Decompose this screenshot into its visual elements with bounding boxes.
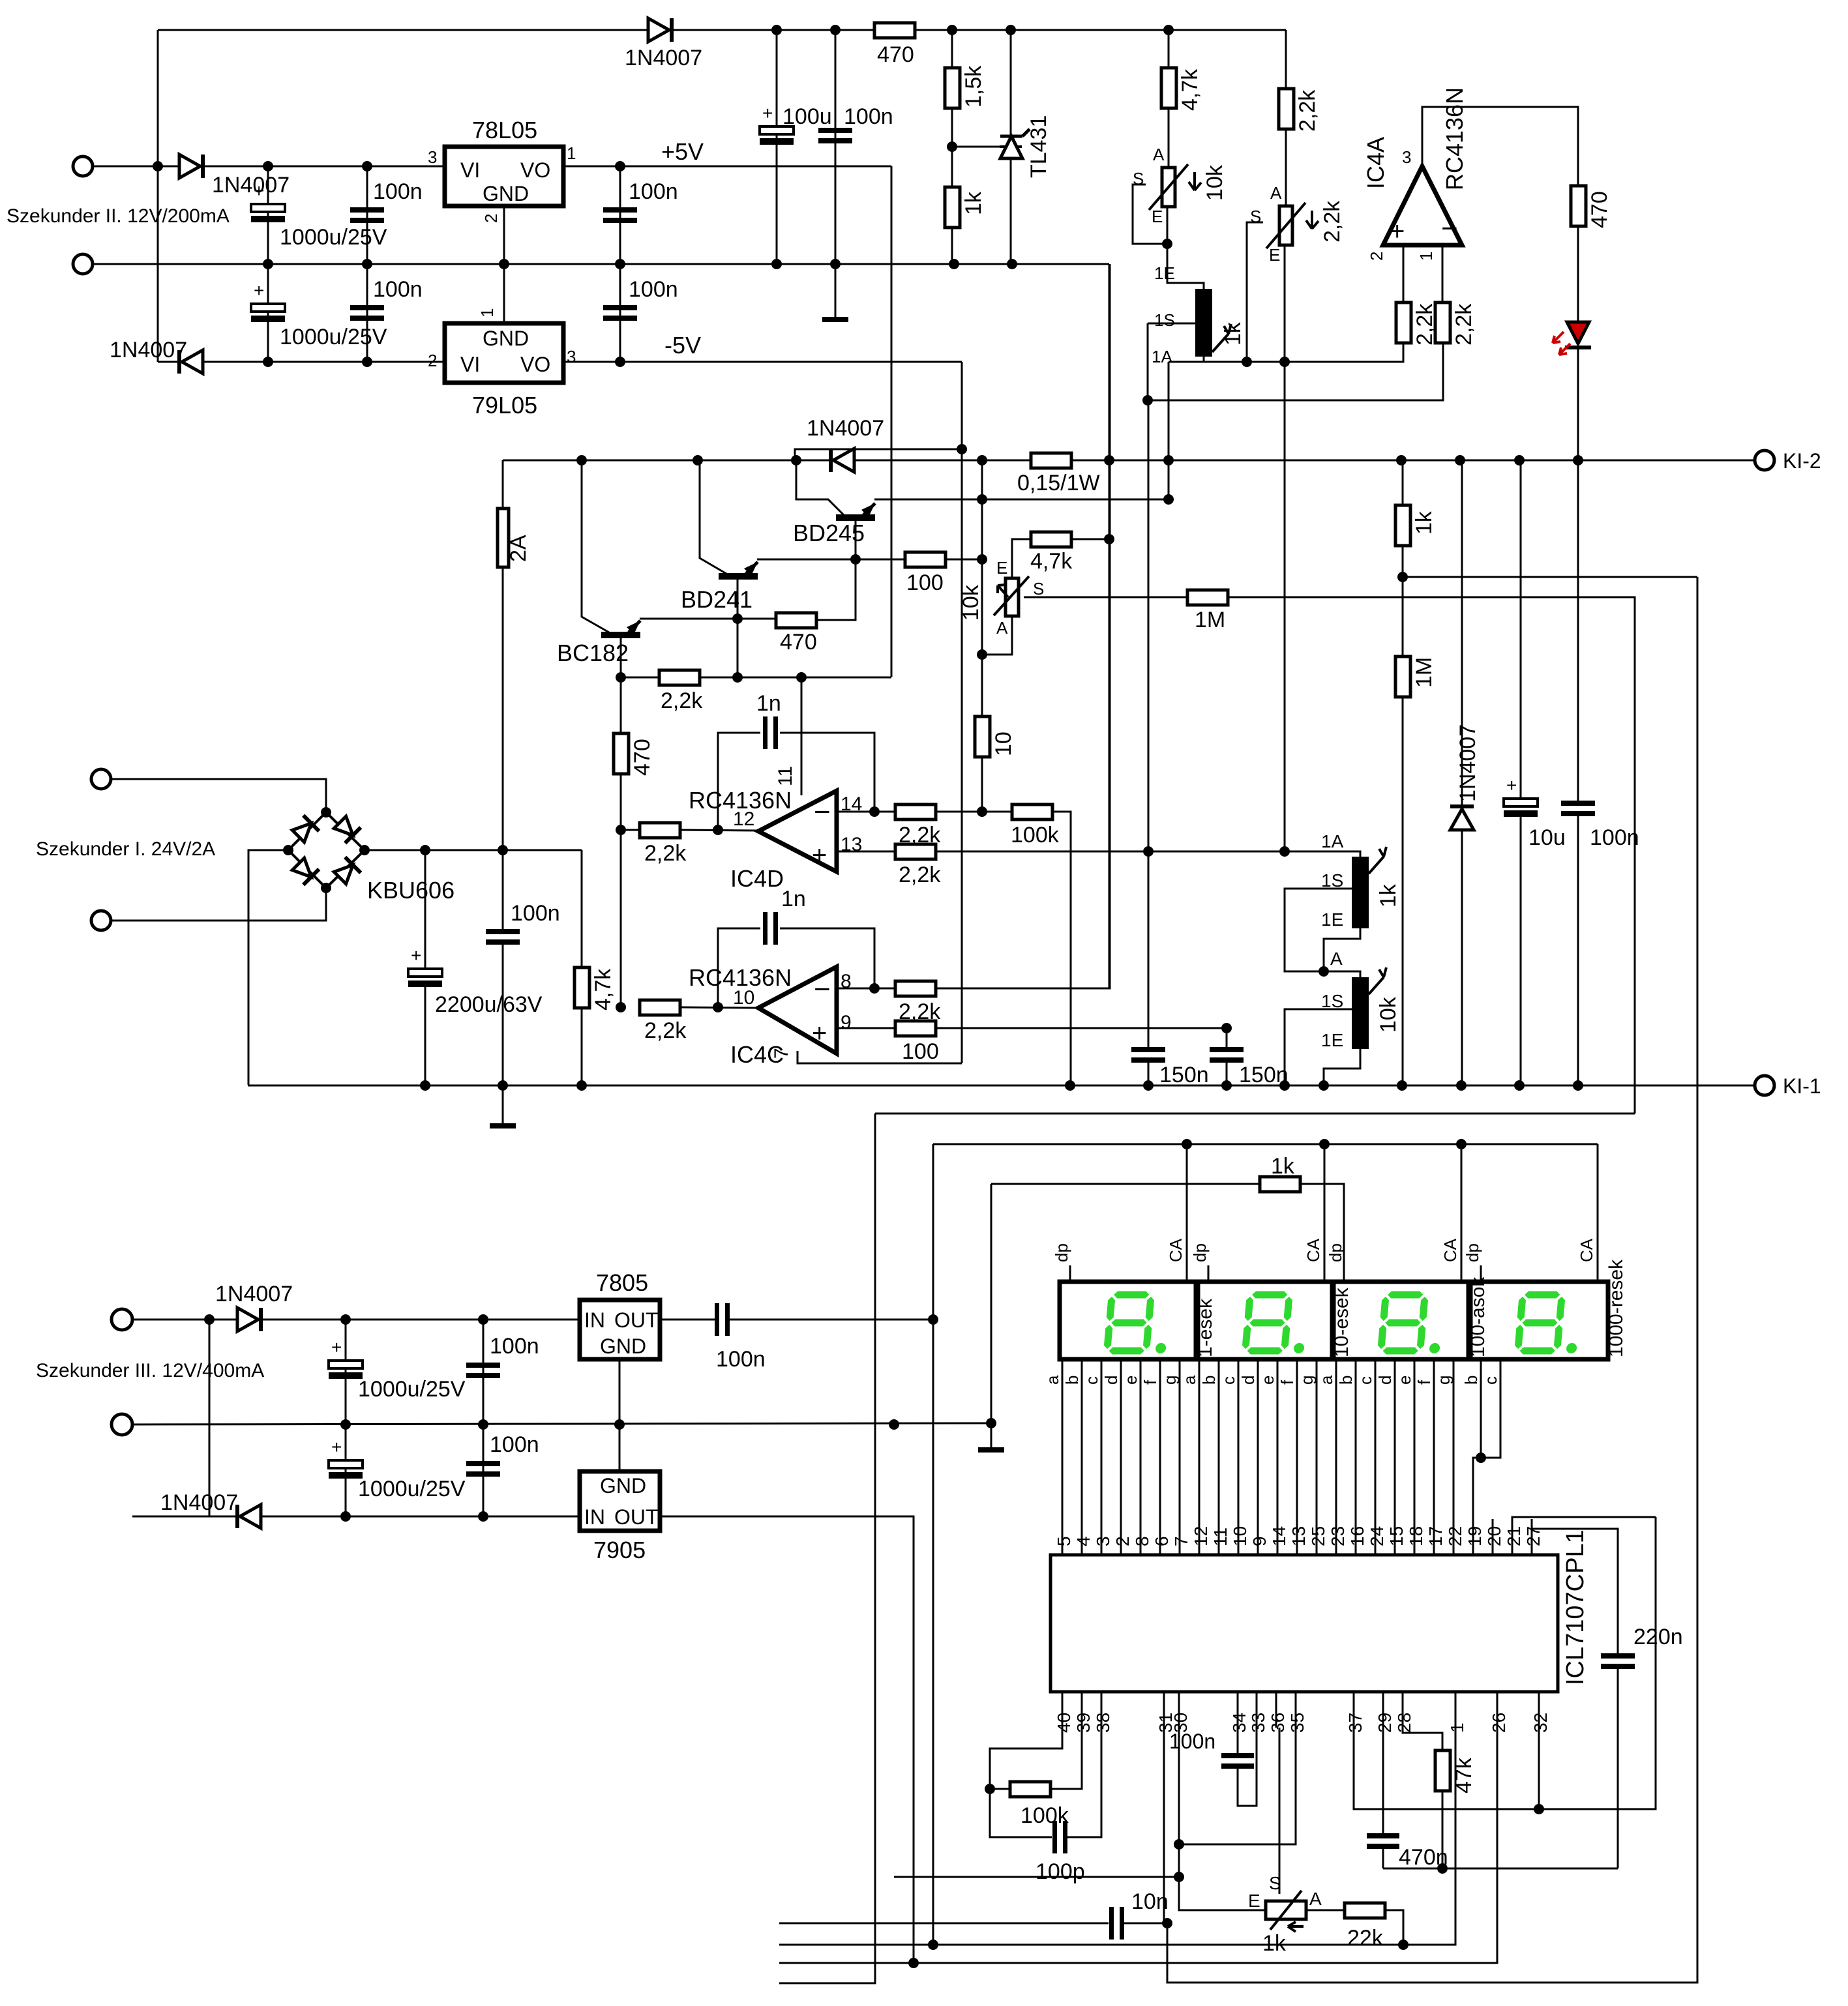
ICL7107 bottom pin 26: [1497, 1692, 1498, 1728]
wire 1A drop: [1203, 357, 1205, 362]
svg-text:E: E: [1248, 1891, 1260, 1911]
svg-text:1k: 1k: [1271, 1154, 1295, 1179]
terminal KI-1: [1755, 1076, 1774, 1095]
svg-text:b: b: [1461, 1376, 1481, 1385]
svg-text:+: +: [812, 1019, 827, 1048]
wire 1M down: [1402, 698, 1404, 1085]
capacitor 1n IC4D: [763, 716, 768, 749]
svg-text:1000u/25V: 1000u/25V: [358, 1377, 466, 1402]
junction psu3 bus: [204, 1314, 215, 1325]
svg-text:470: 470: [877, 42, 914, 67]
svg-text:100n: 100n: [490, 1334, 539, 1359]
wire 100n top right leads: [835, 30, 837, 319]
svg-text:5: 5: [1054, 1536, 1074, 1546]
svg-text:0,15/1W: 0,15/1W: [1017, 471, 1100, 495]
svg-text:dp: dp: [1326, 1243, 1345, 1262]
display 3 dp pin: [1343, 1265, 1345, 1282]
resistor 10: [975, 716, 990, 757]
junction top rail 100n: [830, 25, 841, 35]
svg-text:3: 3: [1402, 147, 1411, 167]
junction CA rail x=2031: [1319, 1139, 1330, 1149]
display digit 4 segments: [1515, 1292, 1581, 1353]
terminal Szekunder I upper: [91, 769, 111, 789]
svg-text:c: c: [1219, 1376, 1238, 1385]
junction 470 2,2k: [616, 825, 626, 835]
svg-text:a: a: [1180, 1375, 1199, 1385]
wire segment c to ICL pin 10: [1238, 1359, 1240, 1555]
svg-text:1: 1: [1416, 252, 1436, 261]
junction KI-1 x=2241: [1456, 1080, 1467, 1091]
junction mid rail x=773: [499, 259, 509, 269]
svg-text:1S: 1S: [1321, 991, 1343, 1011]
wire 10u leads: [1520, 460, 1522, 799]
wire 1k to node: [1402, 545, 1404, 655]
ICL7107 bottom pin 29: [1382, 1692, 1384, 1728]
wire 1n loop IC4C: [718, 928, 760, 1007]
wire segment e to ICL pin 14: [1277, 1359, 1279, 1555]
junction 100k 100p: [985, 1784, 995, 1794]
svg-text:IC4D: IC4D: [730, 865, 784, 892]
wire psu3 bottom rail: [132, 1516, 580, 1518]
wire segment b display4: [1473, 1359, 1481, 1555]
junction psu3 mid x=950: [614, 1419, 625, 1430]
svg-text:9: 9: [841, 1012, 852, 1033]
svg-text:1S: 1S: [1321, 870, 1343, 891]
display digit 2 segments: [1242, 1292, 1309, 1353]
wire BD241 collector: [737, 579, 739, 677]
bridge diode: [290, 856, 319, 885]
svg-text:1: 1: [567, 143, 576, 163]
junction mid rail x=411: [263, 259, 273, 269]
resistor 4,7k top: [1161, 68, 1176, 108]
resistor 4,7k mid: [1031, 532, 1071, 547]
display digit 3 segments: [1378, 1292, 1444, 1353]
junction pin32 net: [1534, 1804, 1544, 1814]
junction KI-2 rail x=1506: [977, 455, 987, 465]
wire segment c to ICL pin 24: [1375, 1359, 1377, 1555]
diode 1N4007 +12 rail: [179, 155, 200, 178]
junction KI-1 x=1641: [1065, 1080, 1075, 1091]
svg-text:VO: VO: [520, 158, 550, 182]
wire +12 rail: [203, 166, 445, 168]
resistor 2,2k pin14: [895, 804, 936, 819]
wire 100n r leads: [1577, 460, 1579, 803]
svg-text:1N4007: 1N4007: [807, 416, 884, 441]
junction 1S bus: [1142, 395, 1153, 406]
capacitor 470n: [1367, 1833, 1399, 1838]
wire -5V drop: [961, 362, 963, 1063]
junction KI-2 rail x=1701: [1104, 455, 1114, 465]
svg-text:VI: VI: [460, 158, 480, 182]
wire pin12 node: [621, 829, 640, 831]
wire 470 vert leads: [620, 677, 622, 830]
capacitor 100n KBU: [486, 929, 520, 934]
junction emitter KI-2 stub: [977, 494, 987, 505]
capacitor 150n left: [1131, 1047, 1165, 1052]
svg-text:10k: 10k: [1376, 996, 1401, 1033]
ICL7107 bottom pin 35: [1295, 1692, 1297, 1728]
resistor 100k right: [1012, 804, 1052, 819]
wire 4,7k leads: [1168, 30, 1170, 168]
svg-text:1A: 1A: [1152, 347, 1172, 366]
svg-text:100n: 100n: [373, 277, 423, 302]
svg-text:d: d: [1375, 1376, 1395, 1385]
resistor 470 top: [874, 23, 915, 38]
svg-text:100n: 100n: [629, 179, 678, 204]
wire 2200u bottom: [425, 987, 426, 1085]
capacitor 100n right: [1561, 801, 1595, 806]
junction mid rail x=951: [615, 259, 625, 269]
wire IC4A pin2: [1403, 245, 1405, 304]
svg-text:c: c: [1481, 1376, 1500, 1385]
svg-text:2200u/63V: 2200u/63V: [435, 992, 543, 1017]
wire 1k disp right: [1300, 1184, 1344, 1282]
wire pot A down: [982, 616, 1012, 655]
ICL7107 bottom pin 31: [1163, 1692, 1165, 1728]
resistor 1M vertical: [1395, 656, 1410, 697]
wire pin40: [990, 1728, 1062, 1789]
svg-text:21: 21: [1504, 1526, 1524, 1546]
capacitor 100n lower left: [350, 305, 384, 310]
display 1 dp pin: [1069, 1265, 1071, 1282]
svg-text:RC4136N: RC4136N: [1441, 87, 1468, 190]
junction -12 C4: [263, 357, 273, 367]
svg-text:18: 18: [1406, 1526, 1426, 1546]
svg-text:2: 2: [1112, 1536, 1133, 1546]
junction KI-1 x=892: [576, 1080, 587, 1091]
wire 100n C6: [619, 264, 621, 362]
svg-text:15: 15: [1386, 1526, 1407, 1546]
svg-text:36: 36: [1268, 1713, 1288, 1733]
svg-text:1E: 1E: [1321, 1030, 1343, 1050]
wire node A to loop: [1403, 576, 1697, 578]
wire pin7: [797, 1051, 962, 1063]
wire segment g to ICL pin 7: [1179, 1359, 1181, 1555]
ICL7107 bottom pin 40: [1062, 1692, 1064, 1728]
junction psu3 mid x=530: [340, 1419, 351, 1430]
resistor 4,7k KBU: [574, 967, 589, 1008]
svg-text:b: b: [1336, 1376, 1356, 1385]
display digit 1 box: [1060, 1282, 1196, 1359]
svg-text:100p: 100p: [1036, 1859, 1085, 1884]
wire C4 leads: [267, 264, 269, 362]
svg-text:2,2k: 2,2k: [644, 1018, 687, 1043]
wire psu3 c4: [483, 1424, 484, 1516]
svg-text:+: +: [1506, 775, 1517, 795]
svg-text:KI-2: KI-2: [1783, 449, 1821, 473]
svg-text:10: 10: [991, 731, 1016, 756]
wire KI-2 rail: [503, 460, 1755, 462]
junction psu3 c3b: [340, 1511, 351, 1522]
svg-text:100: 100: [902, 1039, 939, 1064]
svg-text:Szekunder III. 12V/400mA: Szekunder III. 12V/400mA: [36, 1360, 264, 1381]
svg-text:e: e: [1395, 1376, 1414, 1385]
svg-text:470: 470: [1587, 191, 1612, 228]
junction -12 C5: [362, 357, 372, 367]
resistor 1k display: [1260, 1177, 1300, 1192]
wire 1n right IC4C: [780, 928, 874, 988]
junction psu3 c1: [340, 1314, 351, 1325]
svg-text:38: 38: [1093, 1713, 1113, 1733]
wire 2,2k to pin10: [680, 1007, 758, 1008]
junction KI-2 rail x=892: [576, 455, 587, 465]
svg-text:e: e: [1121, 1376, 1140, 1385]
svg-text:e: e: [1258, 1376, 1277, 1385]
op-amp IC4A: [1383, 166, 1462, 245]
svg-text:1N4007: 1N4007: [625, 46, 702, 70]
junction KI-2 rail x=1070: [693, 455, 703, 465]
resistor 100k osc: [1010, 1782, 1051, 1797]
svg-text:1k: 1k: [1262, 1931, 1287, 1956]
junction pin30 35: [1174, 1839, 1184, 1850]
wire 4,7k right: [1071, 538, 1109, 540]
svg-text:100n: 100n: [511, 901, 560, 926]
junction +12 C2: [362, 161, 372, 171]
ICL7107 bottom pin 39: [1081, 1692, 1083, 1728]
svg-text:KI-1: KI-1: [1783, 1074, 1821, 1098]
wire 1k right leads: [1402, 460, 1404, 505]
junction 150n right top: [1221, 1023, 1232, 1033]
ICL7107 bottom pin 28: [1402, 1692, 1404, 1728]
terminal Szekunder III upper: [112, 1309, 132, 1330]
svg-text:1N4007: 1N4007: [1455, 724, 1480, 802]
wire segment d to ICL pin 9: [1257, 1359, 1259, 1555]
svg-text:35: 35: [1287, 1713, 1307, 1733]
wire psu3 bus: [209, 1320, 211, 1516]
wire 100k right lead: [1052, 812, 1071, 1085]
resistor 1M horizontal: [1187, 590, 1228, 605]
capacitor 100p: [1052, 1821, 1057, 1853]
wire psu3 c1: [345, 1320, 347, 1424]
svg-text:1k: 1k: [1376, 883, 1401, 907]
junction KI-1 x=2420: [1573, 1080, 1583, 1091]
wire 1n loop IC4D: [718, 733, 760, 830]
capacitor 10n: [1109, 1907, 1114, 1940]
svg-text:2: 2: [481, 214, 501, 223]
svg-text:dp: dp: [1052, 1243, 1071, 1262]
wire pin8 out: [837, 988, 895, 990]
junction KI-2 rail x=2239: [1455, 455, 1465, 465]
wire pin13 long: [936, 851, 1360, 857]
wire pot A 22k: [1306, 1910, 1345, 1911]
wire bridge plus rail: [365, 849, 582, 851]
svg-text:100n: 100n: [844, 104, 893, 129]
display digit 1 segments: [1104, 1292, 1170, 1353]
wire pin32: [1538, 1728, 1540, 1809]
svg-text:IN: IN: [584, 1505, 605, 1529]
wire BD245 collector: [855, 520, 857, 559]
svg-text:22: 22: [1445, 1526, 1465, 1546]
wire 100n kbu bottom: [502, 942, 504, 1085]
diode 1N4007 psu3 top: [237, 1308, 258, 1331]
wire 79L05 GND: [503, 264, 505, 323]
wire 100p left: [990, 1789, 1052, 1837]
trimmer 1k right (solid): [1352, 857, 1369, 928]
svg-text:13: 13: [1289, 1526, 1309, 1546]
svg-text:OUT: OUT: [614, 1308, 659, 1332]
junction 2,2k IC4C: [616, 1002, 626, 1012]
regulator 7905: [580, 1471, 660, 1531]
svg-text:100k: 100k: [1021, 1803, 1069, 1828]
svg-text:E: E: [1152, 207, 1163, 226]
wire TL431 leads: [1010, 30, 1012, 136]
svg-text:470n: 470n: [1399, 1845, 1448, 1870]
wire 555 right: [1169, 342, 1403, 362]
wire segment d to ICL pin 15: [1394, 1359, 1396, 1555]
svg-text:1N4007: 1N4007: [215, 1282, 293, 1306]
capacitor 100n psu3 bot: [466, 1461, 500, 1466]
wire 100k left: [990, 1788, 1010, 1790]
svg-text:4,7k: 4,7k: [1030, 549, 1073, 574]
wire CA4: [1597, 1144, 1599, 1282]
junction pot10k SE: [1162, 239, 1172, 249]
wire CA2: [1324, 1144, 1326, 1282]
capacitor 100n psu3 top: [466, 1363, 500, 1368]
display digit 4 box: [1470, 1282, 1608, 1359]
display digit 2 box: [1198, 1282, 1332, 1359]
wire bridge minus: [248, 850, 288, 1085]
junction +12 C1: [263, 161, 273, 171]
svg-text:29: 29: [1375, 1713, 1395, 1733]
ICL7107 bottom pin 32: [1538, 1692, 1540, 1728]
svg-text:100u: 100u: [782, 104, 832, 129]
svg-text:Szekunder I. 24V/2A: Szekunder I. 24V/2A: [36, 838, 215, 860]
svg-text:A: A: [1153, 145, 1165, 164]
op-amp IC4C: [758, 967, 837, 1054]
junction x1506 100: [977, 554, 987, 565]
wire IC4A pin1: [1442, 245, 1444, 304]
capacitor 1n IC4C: [763, 912, 768, 945]
svg-text:1E: 1E: [1321, 909, 1343, 930]
svg-text:10u: 10u: [1528, 825, 1566, 850]
wire sek1 top: [111, 779, 326, 812]
svg-text:10n: 10n: [1131, 1889, 1169, 1914]
svg-text:2: 2: [428, 351, 437, 370]
wire 10u bottom: [1520, 817, 1522, 1085]
junction 22k bus: [1398, 1940, 1408, 1950]
wire 1S bus: [1148, 342, 1443, 400]
wire pin29: [1382, 1728, 1384, 1833]
junction plus 100n: [498, 845, 508, 855]
wire bus 2951b: [1124, 1923, 1167, 1925]
junction KI-2 rail x=1792: [1163, 455, 1174, 465]
junction psu3 c4b: [478, 1511, 488, 1522]
wire pot2,2k S jumper: [1247, 222, 1263, 362]
wire bus 2951: [779, 1923, 1109, 1925]
svg-text:1: 1: [1447, 1722, 1467, 1733]
svg-text:11: 11: [1210, 1527, 1230, 1546]
junction node A wire: [1397, 572, 1408, 582]
junction bus 7905: [908, 1958, 919, 1968]
transistor BD245: [836, 514, 875, 521]
resistor 1,5k: [945, 68, 960, 108]
wire 100 to stub: [946, 559, 982, 561]
junction KI-1 x=2150: [1397, 1080, 1407, 1091]
wire 1A vertical: [1168, 362, 1170, 499]
wire KI-2 tap: [795, 449, 962, 460]
trimmer 1k upper (solid): [1195, 289, 1212, 357]
svg-text:VI: VI: [460, 353, 480, 376]
resistor 2,2k IC4A+: [1396, 302, 1411, 343]
regulator 79L05: [445, 323, 563, 383]
wire 7905 gnd: [619, 1424, 621, 1471]
junction pin13 x1762: [1143, 846, 1154, 857]
svg-text:7905: 7905: [593, 1537, 646, 1563]
wire A to 10k pot: [1324, 971, 1360, 977]
wire outer loop bottom: [1167, 577, 1697, 1983]
svg-text:100n: 100n: [1590, 825, 1639, 850]
svg-text:A: A: [1309, 1889, 1322, 1909]
wire segment b to ICL pin 11: [1218, 1359, 1220, 1555]
svg-text:g: g: [1434, 1376, 1453, 1385]
wire BD241 emitter wire: [757, 559, 906, 561]
svg-text:1E: 1E: [1154, 263, 1175, 283]
ground 100n top right: [822, 317, 848, 322]
resistor 2,2k IC4D in: [640, 823, 680, 838]
bridge diode: [290, 816, 319, 844]
wire pin34 b: [1238, 1728, 1257, 1806]
svg-text:1000u/25V: 1000u/25V: [280, 225, 387, 250]
wire segment f to ICL pin 17: [1433, 1359, 1435, 1555]
terminal Szekunder II lower: [73, 254, 93, 274]
svg-text:16: 16: [1347, 1526, 1367, 1546]
svg-text:+: +: [411, 945, 421, 966]
wire bus 2879: [894, 1876, 1179, 1878]
svg-text:BD245: BD245: [793, 520, 865, 546]
svg-text:25: 25: [1308, 1526, 1328, 1546]
wire BC182 base: [582, 460, 609, 632]
junction CA rail x=2241: [1456, 1139, 1467, 1149]
svg-text:a: a: [1043, 1375, 1062, 1385]
svg-text:+: +: [254, 280, 264, 301]
wire KI-1 rail: [248, 1085, 1755, 1087]
junction BC182 base node: [616, 672, 626, 683]
wire 470 to LED: [1577, 226, 1579, 322]
svg-text:37: 37: [1345, 1713, 1365, 1733]
transistor BD241: [719, 573, 758, 580]
resistor 100 pin9: [895, 1021, 936, 1036]
wire TL431 to divider: [952, 146, 1000, 148]
junction BD241 col BC182: [732, 613, 743, 624]
terminal Szekunder I lower: [91, 911, 111, 930]
svg-text:c: c: [1082, 1376, 1101, 1385]
wire 7805 out: [660, 1319, 715, 1321]
svg-text:A: A: [1330, 949, 1343, 969]
svg-text:470: 470: [630, 739, 655, 776]
wire segment b to ICL pin 4: [1081, 1359, 1083, 1555]
wire CA3: [1461, 1144, 1463, 1282]
svg-text:g: g: [1297, 1376, 1317, 1385]
svg-text:f: f: [1414, 1379, 1434, 1385]
svg-text:220n: 220n: [1633, 1625, 1683, 1649]
wire 1S upper: [1148, 323, 1200, 325]
svg-text:+: +: [812, 841, 827, 870]
resistor 2,2k pin8: [895, 981, 936, 996]
capacitor 220n: [1601, 1653, 1635, 1659]
junction mid rail x=1281: [830, 259, 841, 269]
svg-text:40: 40: [1054, 1713, 1074, 1733]
junction top rail 4,7k: [1163, 25, 1174, 35]
wire segment g to ICL pin 25: [1316, 1359, 1318, 1555]
svg-text:OUT: OUT: [614, 1505, 659, 1529]
resistor 2,2k top right: [1279, 89, 1294, 129]
svg-text:+: +: [254, 181, 264, 201]
svg-text:1000u/25V: 1000u/25V: [280, 325, 387, 349]
svg-text:E: E: [996, 558, 1007, 578]
wire x1762 long: [1148, 400, 1150, 1050]
wire CA rail: [933, 1143, 1598, 1145]
wire C1 leads: [267, 166, 269, 264]
